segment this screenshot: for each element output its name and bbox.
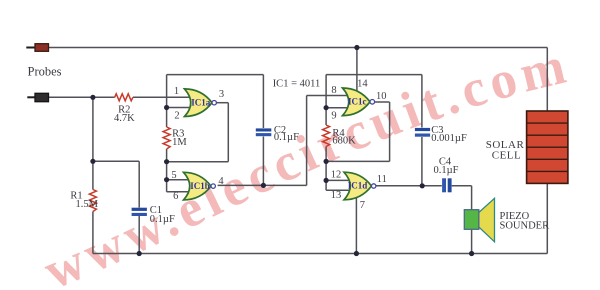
wire pin6 stub [167,191,191,193]
svg-text:8: 8 [331,85,336,96]
resistor R3 [163,127,170,149]
wire bottom rail [93,253,547,255]
wire pin5 stub [167,179,191,181]
capacitor C4 [442,178,452,192]
svg-text:1: 1 [174,86,179,97]
wire feedback top A (R3 top to C2) [167,74,264,76]
wire IC1a output [216,102,228,104]
wire R3 branch lower [166,149,168,192]
svg-text:0.001µF: 0.001µF [431,133,467,144]
svg-text:11: 11 [377,174,387,185]
svg-text:IC1 = 4011: IC1 = 4011 [273,79,321,90]
gate IC1d [344,172,376,200]
svg-text:5: 5 [171,170,176,181]
junction bottom rail to pin7 [354,251,359,256]
wire R1 branch lower [92,212,94,254]
capacitor C2 [256,128,271,136]
wire IC1a output down [227,103,229,162]
gate IC1a [185,89,217,117]
gate IC1b [184,172,216,200]
probe P1 [26,44,48,52]
pin numbers [171,79,386,211]
svg-text:1.5M: 1.5M [76,199,99,210]
wire C2 branch upper [262,75,264,128]
junction IC1b output to C2 [261,183,266,188]
wire piezo down [471,186,473,254]
wire R1 to C1 top [93,160,139,162]
svg-text:IC1b: IC1b [190,181,210,191]
svg-text:Probes: Probes [28,65,62,79]
svg-text:680K: 680K [332,136,356,147]
junction bottom rail to C1 [137,251,142,256]
solar cell [527,111,568,183]
wire C3 branch upper [421,75,423,128]
wire IC1c output down [389,102,391,161]
svg-text:0.1µF: 0.1µF [274,132,299,143]
wire R4 branch upper [325,75,327,125]
gate IC1c [343,88,375,116]
svg-text:IC1a: IC1a [191,97,211,107]
resistor R1 [89,190,96,212]
wire pin8 down [306,96,308,186]
wire IC1a feedback bottom [167,161,229,163]
svg-text:13: 13 [331,190,342,201]
wire solar top [546,48,548,112]
svg-text:CELL: CELL [492,150,522,162]
wire solar bottom [546,183,548,253]
wire IC1c output [375,101,390,103]
svg-text:IC1c: IC1c [348,97,367,107]
piezo sounder [464,198,494,242]
wire probe2 to pin1 [49,96,115,98]
svg-text:IC1d: IC1d [348,181,368,191]
svg-text:www.eleccircuit.com: www.eleccircuit.com [36,37,571,290]
junction pin12 bracket [324,178,329,183]
junction bottom rail to piezo [469,251,474,256]
wire R3 branch upper [166,75,168,127]
svg-text:SOUNDER: SOUNDER [500,221,550,232]
svg-text:0.1µF: 0.1µF [150,214,175,225]
svg-text:4: 4 [218,176,224,187]
svg-text:14: 14 [357,79,368,90]
junction R1 to C1 [90,159,95,164]
junction pin2 to R3 [164,105,169,110]
capacitor C1 [132,208,147,216]
svg-text:3: 3 [219,89,224,100]
svg-text:9: 9 [331,110,336,121]
junction R4 bottom feedback [324,159,329,164]
svg-text:7: 7 [360,200,365,211]
svg-text:6: 6 [173,191,178,202]
wire pin14 [356,48,358,93]
wire pin8 stub [307,95,353,97]
junction R3 bottom feedback [164,159,169,164]
wire C2 branch lower [262,137,264,186]
svg-text:10: 10 [376,91,387,102]
svg-text:1M: 1M [172,137,187,148]
resistor R4 [323,125,330,147]
junction IC1d output to C3 [420,183,425,188]
wire C1 branch lower [138,216,140,254]
svg-text:4.7K: 4.7K [114,113,135,124]
probe P2 [27,93,48,101]
wire IC1c feedback bottom [326,160,390,162]
wire C4 to piezo corner [452,185,472,187]
wire C3 branch lower [421,137,423,186]
wire pin12 stub [326,179,351,181]
wire IC1b output [218,184,307,186]
wire pin9 stub [326,107,353,109]
svg-text:0.1µF: 0.1µF [433,165,458,176]
wire pin13 stub [326,189,351,191]
wire pin2 stub [167,107,192,109]
svg-text:12: 12 [331,170,342,181]
wire top B (R4 top to C3) [326,74,422,76]
svg-text:2: 2 [174,110,179,121]
wire pin7 down [355,198,357,254]
wire IC1d output to C4 [375,185,442,187]
junction probe wire to R1 [90,95,95,100]
capacitor C3 [415,128,430,137]
wire R1 branch upper [92,97,94,189]
junction pin5 bracket [164,177,169,182]
junction pin9 to R4 [324,105,329,110]
wire top supply [49,47,548,49]
resistor R2 [115,94,133,101]
junction supply to pin14 [354,45,359,50]
wire R4 branch lower [325,147,327,191]
wire C1 branch upper [138,161,140,207]
